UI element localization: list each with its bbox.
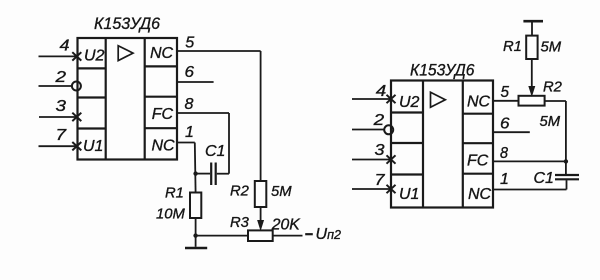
svg-text:20K: 20K [271,216,301,233]
svg-text:7: 7 [375,172,386,189]
svg-text:6: 6 [185,64,195,81]
svg-text:10M: 10M [156,207,185,223]
svg-text:FC: FC [152,106,174,123]
svg-text:U2: U2 [399,94,420,111]
svg-text:К153УД6: К153УД6 [94,14,161,33]
svg-text:5: 5 [501,84,510,101]
svg-text:5: 5 [185,35,194,52]
svg-text:3: 3 [375,142,385,159]
svg-text:R1: R1 [165,186,184,202]
svg-text:3: 3 [56,98,67,115]
svg-text:1: 1 [185,124,194,141]
svg-text:7: 7 [56,127,68,144]
svg-text:6: 6 [500,115,510,132]
svg-text:C1: C1 [534,170,554,187]
svg-text:5M: 5M [541,40,562,56]
svg-text:R1: R1 [503,39,522,55]
svg-text:8: 8 [500,145,508,162]
svg-text:NC: NC [467,94,491,111]
svg-text:2: 2 [54,69,66,86]
svg-text:R2: R2 [230,184,250,200]
svg-text:U2: U2 [84,48,105,65]
svg-text:NC: NC [152,138,176,155]
svg-text:NC: NC [150,45,174,62]
svg-text:U1: U1 [83,138,103,155]
svg-text:R2: R2 [543,80,563,96]
svg-text:Uп2: Uп2 [316,226,341,243]
svg-text:4: 4 [60,38,70,55]
svg-text:К153УД6: К153УД6 [410,61,475,80]
svg-text:1: 1 [500,171,509,188]
svg-text:R3: R3 [230,215,250,231]
svg-text:U1: U1 [399,186,419,203]
svg-text:5M: 5M [540,114,561,130]
svg-text:NC: NC [468,186,492,203]
svg-text:8: 8 [185,96,194,113]
svg-text:C1: C1 [205,143,225,160]
svg-text:FC: FC [467,153,489,170]
svg-text:5M: 5M [271,184,292,200]
svg-text:2: 2 [372,112,384,129]
svg-text:4: 4 [376,83,387,100]
